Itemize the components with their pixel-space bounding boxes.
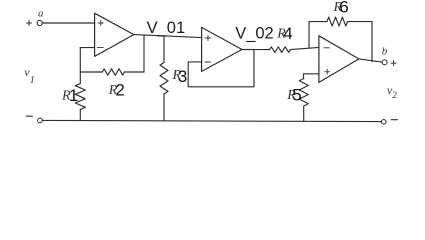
resistor R4 bbox=[270, 47, 291, 53]
wire R2 right lead bbox=[125, 71, 145, 73]
svg-text:2: 2 bbox=[392, 90, 397, 100]
U1 minus mark bbox=[97, 47, 103, 49]
wire R2 up to node V_01 bbox=[143, 35, 145, 72]
svg-text:6: 6 bbox=[339, 0, 348, 17]
resistor R1 bbox=[75, 84, 85, 110]
wire bottom rail bbox=[43, 120, 382, 121]
U2 plus mark bbox=[206, 36, 211, 41]
wire R1 bottom lead to rail bbox=[79, 110, 81, 121]
svg-text:3: 3 bbox=[178, 67, 187, 86]
wire U3 output to terminal b bbox=[359, 59, 382, 62]
resistor R6 bbox=[327, 17, 348, 26]
terminal bottom-right bbox=[382, 120, 387, 125]
svg-text:b: b bbox=[382, 45, 388, 57]
terminal b bbox=[382, 60, 387, 65]
minus sign bottom-left bbox=[26, 115, 32, 117]
wire R6 left vertical bbox=[308, 22, 310, 48]
wire R2 left lead bbox=[80, 71, 102, 73]
svg-text:2: 2 bbox=[115, 81, 124, 100]
svg-text:5: 5 bbox=[292, 86, 301, 105]
svg-text:1: 1 bbox=[30, 75, 35, 86]
svg-text:V_01: V_01 bbox=[147, 19, 186, 37]
wire R3 bottom lead to rail bbox=[163, 94, 165, 121]
U1 plus mark bbox=[98, 21, 103, 26]
svg-text:1: 1 bbox=[69, 86, 78, 105]
op-amp U3 bbox=[319, 36, 359, 83]
wire R6 right vertical to output bbox=[371, 22, 373, 62]
U3 minus mark bbox=[324, 47, 330, 49]
svg-text:V_02: V_02 bbox=[235, 24, 274, 42]
wire U2 feedback loop bbox=[188, 50, 254, 87]
wire U3 plus input to R5 bbox=[304, 74, 319, 79]
plus sign at output b bbox=[391, 61, 396, 66]
resistor R3 bbox=[160, 63, 168, 95]
wire feedback vertical to R1/R2 bbox=[79, 48, 81, 84]
plus sign at input a bbox=[27, 21, 32, 26]
svg-text:a: a bbox=[38, 7, 44, 19]
U3 plus mark bbox=[325, 69, 330, 74]
U2 minus mark bbox=[205, 61, 211, 63]
op-amp U1 bbox=[95, 13, 134, 56]
terminal a bbox=[37, 20, 42, 25]
minus sign bottom-right bbox=[391, 119, 397, 121]
wire R3 top lead bbox=[163, 36, 165, 63]
wire R4 to U3 minus input bbox=[290, 47, 319, 49]
terminal bottom-left bbox=[38, 118, 43, 123]
wire U1 minus input stub bbox=[80, 47, 94, 49]
resistor R2 bbox=[102, 69, 124, 75]
resistor R5 bbox=[299, 79, 308, 107]
wire node V_01 : U1 output to U2 + input bbox=[134, 35, 202, 38]
wire R6 right lead bbox=[348, 21, 373, 23]
svg-text:4: 4 bbox=[283, 24, 292, 43]
wire a to op-amp U1 + input bbox=[42, 22, 94, 24]
op-amp U2 bbox=[202, 27, 242, 71]
wire R6 left lead bbox=[309, 21, 327, 23]
wire U2 output to R4 bbox=[242, 49, 270, 51]
wire R5 bottom lead to rail bbox=[303, 106, 305, 121]
